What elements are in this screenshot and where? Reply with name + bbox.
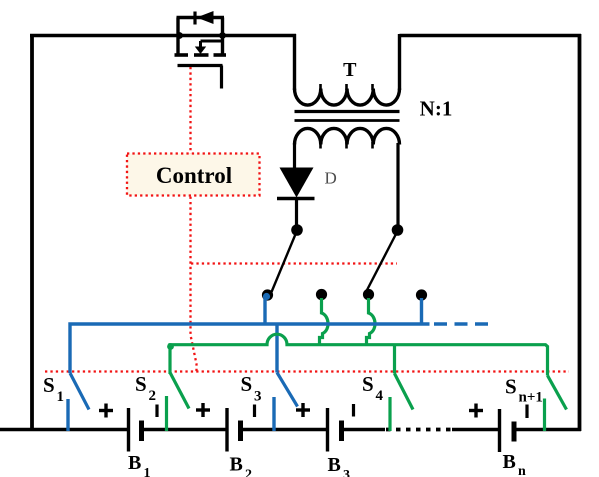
switch blade: selector right arm [366, 233, 397, 292]
diode D triangle [280, 168, 314, 198]
wire: body-diode loop left vertical [176, 18, 179, 57]
control line: long horizontal red dotted [45, 370, 569, 372]
wire: MOSFET to transformer primary left lead [293, 34, 296, 90]
svg-text:S: S [505, 375, 517, 399]
diode: body diode triangle [197, 11, 214, 24]
wire: body-diode loop top [177, 16, 225, 19]
battery B1 long plate [127, 408, 130, 452]
wire: S4 drop from green bus [393, 345, 396, 374]
label minus tick of B1 [155, 405, 158, 418]
svg-text:B: B [230, 454, 243, 476]
wire: blue bus dashed continuation [434, 322, 491, 325]
wire: gate lead [220, 66, 223, 89]
transformer core line bottom [295, 119, 400, 122]
svg-text:B: B [128, 452, 141, 474]
MOSFET arrow head [195, 47, 206, 55]
transformer T secondary winding [295, 128, 400, 144]
node: contact 4 [416, 289, 427, 300]
svg-text:B: B [503, 451, 516, 473]
label minus tick of Bn [525, 405, 528, 419]
control line: vertical red dotted from gate [191, 67, 197, 372]
wire: bottom rail segment 1 [0, 428, 128, 432]
node: green bus corner nub [167, 343, 174, 350]
svg-text:T: T [343, 59, 357, 81]
MOSFET channel segment left [175, 53, 189, 57]
transformer core line top [295, 110, 400, 113]
label + of Bn [469, 404, 483, 418]
svg-text:2: 2 [245, 468, 252, 477]
wire: green bus with hump over S3 drop [170, 334, 548, 375]
wire: blue bus [70, 324, 430, 373]
MOSFET arrow shaft [199, 41, 202, 48]
svg-text:3: 3 [343, 468, 350, 477]
switch S4 blade (green) [395, 374, 414, 410]
switch blade: selector left arm [272, 233, 297, 292]
transistor Q1 (MOSFET with body diode) [175, 11, 297, 89]
label + of B1 [99, 404, 113, 418]
wire: bottom rail segment 3 [241, 428, 327, 432]
svg-text:n: n [518, 464, 526, 477]
wire: contact 2 green stem with crossover hop [320, 298, 329, 345]
transformer primary cusp ticks [321, 84, 373, 90]
switch S3 blade (blue) [277, 373, 298, 407]
label + of B2 [196, 403, 210, 417]
switch S2 blade (green) [170, 373, 189, 409]
svg-text:D: D [325, 169, 337, 188]
wire: contact 4 blue stem [420, 298, 423, 323]
control box [127, 154, 260, 196]
label minus tick of B3 [352, 404, 355, 417]
wire: diode to selector pivot [295, 199, 298, 229]
wire: bottom rail segment 2 [142, 428, 227, 432]
wire: S1 stub [66, 399, 69, 431]
wire: left border [30, 34, 34, 431]
node: drain junction dot [176, 32, 183, 39]
wire: S2 stub [165, 396, 168, 431]
transformer T primary winding [295, 89, 400, 106]
battery B3 short plate [339, 421, 344, 442]
wire: bottom rail segment 4 [342, 428, 385, 432]
node: selector pivot right dot [392, 224, 404, 236]
wire: contact 1 blue stem [263, 298, 266, 323]
wire: transformer primary right lead [398, 34, 401, 90]
switch S1 blade (blue) [70, 373, 89, 410]
svg-text:N:1: N:1 [420, 97, 453, 121]
svg-text:n+1: n+1 [519, 390, 543, 406]
MOSFET arrow branch horizontal [201, 40, 223, 43]
svg-text:Control: Control [156, 163, 232, 188]
transformer secondary cusp ticks [321, 142, 373, 149]
wire: contact 3 green stem with crossover hop [367, 298, 376, 345]
wire: Sn+1 stub [543, 399, 546, 432]
MOSFET gate plate [178, 64, 223, 67]
battery B3 long plate [326, 408, 329, 452]
wire: top rail left segment [30, 34, 180, 37]
node: selector pivot left dot [291, 224, 303, 236]
MOSFET channel segment middle [194, 53, 209, 57]
wire: S3 blue drop [275, 324, 278, 373]
wire: S4 stub [388, 397, 391, 431]
battery B2 short plate [238, 421, 243, 442]
svg-text:3: 3 [254, 389, 262, 405]
svg-text:S: S [241, 372, 253, 396]
wire: bottom rail segment 5 [452, 428, 499, 432]
wire: S3 stub [272, 397, 275, 431]
svg-text:S: S [43, 373, 55, 397]
MOSFET channel segment right [214, 53, 227, 57]
label + of B3 [296, 403, 310, 417]
wire: top rail right segment [400, 34, 582, 37]
control line: short horizontal red dotted [191, 262, 397, 264]
svg-text:S: S [135, 372, 147, 396]
wire: drain-source crossing wire [180, 34, 296, 37]
node: contact 3 [363, 289, 374, 300]
svg-text:B: B [328, 454, 341, 476]
wire: bottom rail dotted continuation [386, 428, 452, 432]
battery B1 short plate [139, 421, 144, 442]
svg-text:S: S [362, 372, 374, 396]
svg-text:2: 2 [149, 388, 157, 404]
diode: body diode cathode bar [193, 12, 196, 25]
wire: right border [578, 34, 582, 431]
wire: secondary left lead to diode [293, 143, 296, 168]
svg-text:1: 1 [144, 466, 151, 477]
node: source junction dot [219, 32, 226, 39]
battery Bn long plate [498, 409, 501, 452]
svg-text:1: 1 [57, 389, 65, 405]
node: contact 2 [316, 289, 327, 300]
label minus tick of B2 [253, 405, 256, 418]
battery Bn short plate [512, 422, 517, 442]
svg-text:4: 4 [376, 388, 384, 404]
switch Sn+1 blade (green) [548, 376, 567, 410]
wire: body-diode loop right vertical [221, 18, 224, 57]
wire: bottom rail segment 6 [514, 428, 581, 432]
diode D cathode bar [277, 197, 315, 200]
battery B2 long plate [225, 408, 228, 452]
wire: secondary right lead to selector pivot [396, 143, 399, 228]
node: contact 1 (blue) [262, 289, 273, 300]
